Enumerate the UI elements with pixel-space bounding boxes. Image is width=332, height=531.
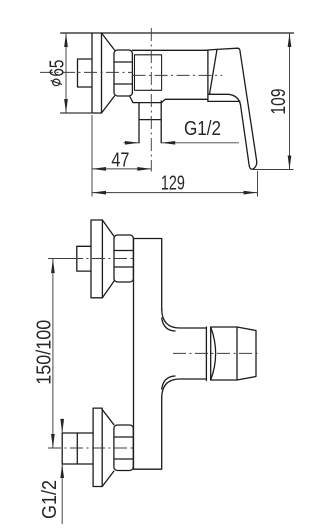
lower pipe joint line (front view) [76,433,78,464]
lever under edge with fillet (top view) [208,94,241,105]
upper hex nut facets (front view) [114,251,133,268]
upper fillet inner arc [162,318,175,331]
arrow Ø65 up [64,33,68,47]
arrowheads [51,33,291,478]
centerline upper inlet (front view) [48,258,136,260]
hex nut facet lines (top view) [114,62,132,84]
arrow 150/100 up [51,259,55,273]
svg-text:150/100: 150/100 [34,320,56,385]
lower supply pipe with union (front view) [62,433,93,464]
supply pipe stub (top view) [78,59,93,87]
centerline outlet axis (top view) [150,28,152,172]
arrow 129 right [244,191,258,195]
outlet boss / G1/2 outlet pipe (top view) [139,101,161,143]
extension line handle bottom (109) [253,169,294,171]
lever lower edge line (top view) [208,100,240,102]
129 dimension line [92,192,258,194]
arrow G1/2 down (front view) [60,419,64,433]
svg-text:65: 65 [46,60,68,77]
neck end face (front view) [205,327,207,381]
lower hex nut (front view) [114,425,133,471]
centerline inlet axis (top view) [40,71,133,73]
arrow 47 right [137,167,151,171]
G1/2 dimension line left part (top view) [124,142,140,144]
G1/2 dimension leader right part (top view) [161,142,239,144]
upper fillet outer arc [162,309,207,328]
svg-text:G1/2: G1/2 [39,480,61,519]
extension line upper centerline (front view) [50,258,78,260]
arrow G1/2 pointing left (top view) [161,141,175,145]
wall flange plate (top view) [61,33,102,113]
lower fillet inner arc [162,376,175,389]
body column (front view) [134,239,162,470]
centerline body axis (top view) [133,74,223,76]
cartridge rectangle (top view) [135,55,162,91]
svg-text:129: 129 [161,173,185,195]
upper supply pipe stub (front view) [77,246,91,271]
lever handle (top view) [206,48,257,169]
dimensions [50,33,294,524]
arrow 109 bottom [288,156,292,170]
lower hex nut facets (front view) [114,437,133,459]
handle cap taper edge (front view) [236,327,238,380]
lower fillet outer arc [162,379,207,398]
centerlines [40,28,260,448]
escutcheon cone (top view) [102,33,115,113]
label Ø65 diameter symbol [51,79,62,86]
arrow Ø65 down [64,99,68,113]
extension line plate bottom left [61,112,92,114]
svg-text:G1/2: G1/2 [184,118,221,140]
upper hex nut (front view) [114,235,133,282]
arrow 47 left [92,167,106,171]
lower escutcheon cone (front view) [102,410,114,487]
150/100 dimension line (front view) [52,259,54,448]
mixer body (top view) [130,50,208,102]
G1/2 dimension upper segment (front view) [61,419,63,434]
extension line left (47/129) [91,115,93,197]
47 dimension line [92,168,151,170]
extension line handle tip (129) [257,171,259,197]
hex nut (top view) [114,50,132,96]
svg-text:47: 47 [111,150,129,172]
arrow 150/100 down [51,434,55,448]
Ø65 dimension line [65,33,67,113]
arrow G1/2 pointing right (top view) [125,141,139,145]
upper wall flange plate (front view) [91,220,102,298]
top edge / extension line for 109 and Ø65 [61,32,294,34]
centerline cartridge axis (front view) [173,352,260,354]
109 dimension line [289,33,291,170]
G1/2 dimension leader lower segment (front view) [61,464,63,524]
arrow G1/2 up (front view) [60,464,64,478]
handle cap spherical arc (front view) [211,327,216,380]
lever front edge (top view) [210,49,218,94]
centerline lower inlet (front view) [48,447,136,449]
handle cap body (front view) [211,327,256,380]
lower wall flange plate (front view) [93,408,102,486]
upper escutcheon cone (front view) [102,220,114,298]
arrow 129 left [92,191,106,195]
arrow 109 top [288,33,292,47]
svg-text:109: 109 [268,89,290,115]
